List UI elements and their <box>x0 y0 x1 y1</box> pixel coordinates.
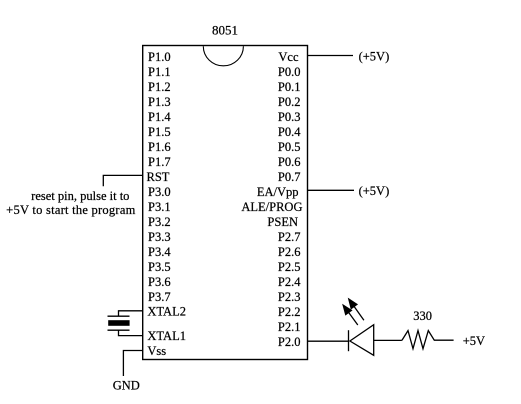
svg-text:GND: GND <box>113 379 140 393</box>
svg-text:P1.7: P1.7 <box>148 155 171 169</box>
svg-text:XTAL1: XTAL1 <box>147 329 186 343</box>
svg-text:P0.3: P0.3 <box>278 110 301 124</box>
svg-text:P2.1: P2.1 <box>278 320 301 334</box>
svg-text:P3.3: P3.3 <box>148 230 171 244</box>
svg-text:P1.6: P1.6 <box>148 140 171 154</box>
svg-text:(+5V): (+5V) <box>359 184 390 198</box>
svg-text:P1.4: P1.4 <box>148 110 171 124</box>
svg-text:P0.6: P0.6 <box>278 155 301 169</box>
svg-text:8051: 8051 <box>212 23 238 38</box>
svg-text:P1.3: P1.3 <box>148 95 171 109</box>
svg-text:XTAL2: XTAL2 <box>147 305 186 319</box>
svg-text:P0.4: P0.4 <box>278 125 301 139</box>
svg-text:PSEN: PSEN <box>267 215 298 229</box>
svg-text:P0.5: P0.5 <box>278 140 301 154</box>
svg-text:P0.0: P0.0 <box>278 65 301 79</box>
svg-text:P1.0: P1.0 <box>148 50 171 64</box>
svg-text:P1.2: P1.2 <box>148 80 171 94</box>
svg-text:P3.2: P3.2 <box>148 215 171 229</box>
svg-text:Vss: Vss <box>147 344 166 358</box>
svg-text:P2.5: P2.5 <box>278 260 301 274</box>
svg-text:P3.1: P3.1 <box>148 200 171 214</box>
svg-text:P1.1: P1.1 <box>148 65 171 79</box>
svg-text:+5V: +5V <box>463 334 485 348</box>
svg-text:P2.4: P2.4 <box>278 275 301 289</box>
svg-text:P3.4: P3.4 <box>148 245 171 259</box>
svg-text:P3.6: P3.6 <box>148 275 171 289</box>
svg-text:P2.7: P2.7 <box>278 230 301 244</box>
svg-text:P3.5: P3.5 <box>148 260 171 274</box>
svg-text:EA/Vpp: EA/Vpp <box>257 185 299 199</box>
svg-text:P2.3: P2.3 <box>278 290 301 304</box>
svg-text:reset pin, pulse it to: reset pin, pulse it to <box>31 189 129 203</box>
svg-text:P2.2: P2.2 <box>278 305 301 319</box>
svg-text:P2.0: P2.0 <box>278 335 301 349</box>
svg-text:(+5V): (+5V) <box>359 49 390 63</box>
svg-text:ALE/PROG: ALE/PROG <box>241 200 302 214</box>
svg-text:330: 330 <box>413 309 432 323</box>
svg-text:P0.2: P0.2 <box>278 95 301 109</box>
svg-text:+5V to start the program: +5V to start the program <box>6 203 135 217</box>
svg-text:P0.7: P0.7 <box>278 170 301 184</box>
svg-text:RST: RST <box>147 170 170 184</box>
svg-text:P0.1: P0.1 <box>278 80 301 94</box>
svg-text:P1.5: P1.5 <box>148 125 171 139</box>
svg-text:Vcc: Vcc <box>278 50 299 64</box>
svg-text:P2.6: P2.6 <box>278 245 301 259</box>
svg-text:P3.7: P3.7 <box>148 290 171 304</box>
svg-text:P3.0: P3.0 <box>148 185 171 199</box>
